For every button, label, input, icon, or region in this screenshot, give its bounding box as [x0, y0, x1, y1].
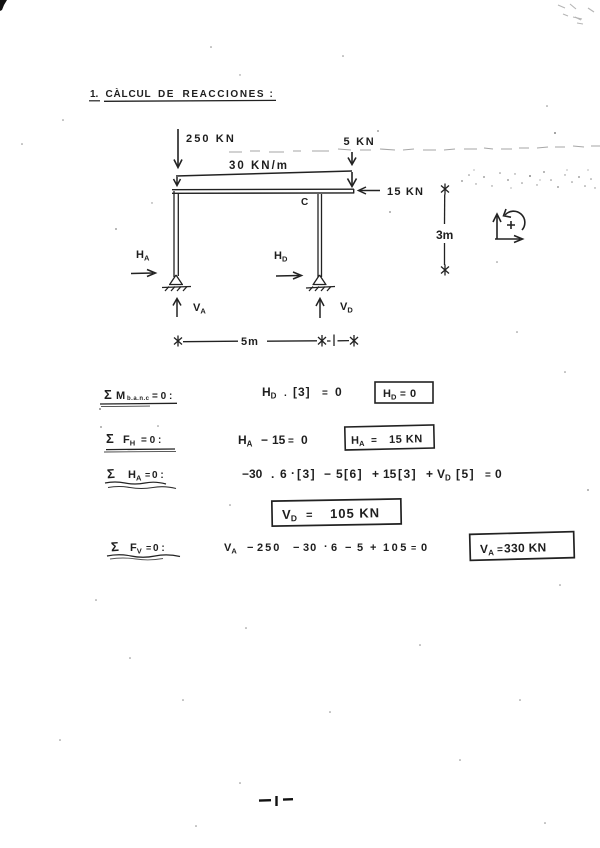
svg-text:+: +	[370, 542, 376, 554]
reaction HD arrow	[276, 272, 302, 279]
dashed scan streak	[229, 146, 600, 152]
svg-text:0: 0	[495, 467, 502, 481]
svg-text:−: −	[247, 542, 253, 554]
svg-text:=: =	[485, 470, 491, 481]
dimension 5m	[174, 335, 358, 347]
svg-text:Σ: Σ	[110, 539, 119, 555]
distributed load line	[174, 171, 353, 186]
svg-text:REACCIONES :: REACCIONES :	[183, 89, 275, 100]
svg-text:250 KN: 250 KN	[186, 133, 236, 145]
svg-text:= 0 :: = 0 :	[152, 391, 172, 402]
support A	[162, 275, 191, 291]
result box HA = 15 KN	[345, 425, 434, 450]
left column (double line)	[174, 191, 178, 277]
svg-text:b.a.n.c: b.a.n.c	[127, 396, 150, 402]
svg-text:M: M	[116, 390, 125, 402]
page number	[259, 796, 293, 806]
svg-text:0 :: 0 :	[153, 543, 165, 554]
svg-text:0: 0	[301, 433, 308, 447]
dimension 3m	[441, 184, 449, 276]
scan noise top right	[558, 4, 594, 24]
svg-text:=: =	[146, 543, 151, 553]
reaction VA arrow	[173, 299, 181, 318]
svg-text:C: C	[301, 197, 308, 208]
scan corner mark	[0, 0, 7, 11]
load 250 KN arrow	[174, 129, 182, 168]
svg-text:105 KN: 105 KN	[330, 505, 380, 521]
eq3 expression	[242, 466, 502, 483]
svg-text:+: +	[426, 467, 433, 481]
svg-text:105: 105	[383, 542, 409, 554]
svg-text:Σ: Σ	[104, 387, 112, 402]
eq3 label sum MA = 0	[105, 466, 176, 489]
svg-text:=: =	[371, 435, 377, 446]
svg-text:·: ·	[324, 541, 328, 553]
result box VD = 105 KN	[272, 499, 401, 526]
eq5 label sum FV = 0	[107, 539, 180, 560]
svg-text:[3]: [3]	[297, 467, 316, 481]
svg-text:DE: DE	[158, 89, 175, 100]
svg-text:−: −	[293, 542, 299, 554]
svg-text:=: =	[145, 470, 150, 480]
svg-text:250: 250	[257, 542, 281, 554]
svg-text:=: =	[288, 436, 294, 447]
reaction HA arrow	[131, 270, 156, 277]
svg-text:15 KN: 15 KN	[387, 186, 424, 198]
svg-text:330 KN: 330 KN	[504, 540, 547, 555]
svg-text:[3]: [3]	[398, 467, 417, 481]
svg-text:6: 6	[331, 542, 337, 554]
svg-text:6: 6	[280, 467, 287, 481]
svg-text:30 KN/m: 30 KN/m	[229, 160, 289, 172]
svg-text:−: −	[345, 542, 351, 554]
svg-text:CÀLCUL: CÀLCUL	[106, 87, 152, 100]
support D	[306, 275, 335, 291]
svg-text:0: 0	[410, 388, 416, 400]
beam (double line)	[172, 189, 354, 194]
svg-text:−: −	[324, 467, 331, 481]
eq2 expression HA - 15 = 0	[238, 433, 308, 449]
reaction VD arrow	[316, 299, 324, 319]
svg-text:.: .	[284, 388, 287, 399]
svg-text:−30: −30	[242, 467, 263, 481]
eq1 expression HD [3] = 0	[262, 385, 342, 401]
right column (double line)	[318, 194, 322, 277]
svg-text:=: =	[322, 388, 328, 399]
svg-text:=: =	[306, 509, 313, 521]
svg-text:15: 15	[383, 467, 397, 481]
svg-text:5: 5	[357, 542, 363, 554]
sign convention symbol	[493, 209, 525, 243]
svg-text:1.: 1.	[90, 89, 99, 100]
svg-text:=: =	[400, 389, 406, 400]
eq2 label sum FH = 0	[104, 431, 176, 452]
svg-text:Σ: Σ	[106, 431, 114, 446]
svg-text:[3]: [3]	[293, 385, 311, 399]
svg-text:[6]: [6]	[344, 467, 363, 481]
svg-text:30: 30	[303, 542, 317, 554]
svg-text:0 :: 0 :	[152, 470, 164, 481]
svg-text:Σ: Σ	[106, 466, 115, 482]
svg-text:3m: 3m	[436, 228, 453, 242]
svg-text:=: =	[497, 544, 503, 555]
svg-text:15: 15	[272, 433, 286, 447]
svg-text:−: −	[261, 433, 268, 447]
speckle cluster right	[461, 169, 596, 188]
svg-text:0: 0	[335, 385, 342, 399]
load 5 KN arrow	[348, 152, 357, 187]
svg-text:+: +	[372, 467, 379, 481]
svg-text:= 0 :: = 0 :	[141, 435, 161, 446]
eq5 expression	[224, 541, 427, 556]
result box VA = 330 KN	[470, 532, 575, 561]
svg-text:[5]: [5]	[456, 467, 475, 481]
eq1 label sum M banc = 0	[100, 387, 177, 407]
force 15 KN arrow	[359, 187, 381, 194]
svg-text:5: 5	[336, 467, 343, 481]
svg-text:·: ·	[291, 466, 295, 480]
svg-text:5 KN: 5 KN	[344, 136, 376, 148]
svg-text:=: =	[411, 543, 416, 553]
svg-text:.: .	[271, 467, 274, 481]
svg-text:0: 0	[421, 542, 427, 554]
result box HD = 0	[375, 382, 433, 403]
svg-text:15 KN: 15 KN	[389, 433, 423, 446]
svg-text:5m: 5m	[241, 336, 259, 348]
title	[89, 87, 276, 101]
